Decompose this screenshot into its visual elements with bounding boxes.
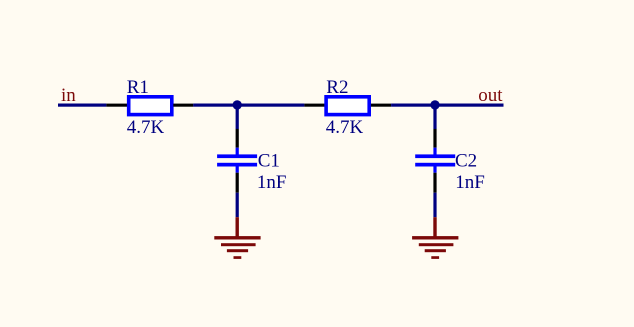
svg-text:1nF: 1nF <box>257 172 287 193</box>
svg-text:C1: C1 <box>258 150 280 171</box>
wire <box>193 104 304 107</box>
capacitor C2 <box>415 148 455 173</box>
wire <box>433 105 436 129</box>
wire <box>391 104 503 107</box>
svg-text:R2: R2 <box>326 77 348 98</box>
wire <box>433 193 436 218</box>
ground GND1 <box>214 217 260 259</box>
resistor R1 <box>129 97 172 115</box>
junction node A <box>233 100 242 109</box>
pin 2 of C1 <box>236 173 239 193</box>
svg-text:in: in <box>61 85 76 106</box>
svg-text:out: out <box>478 85 503 106</box>
resistor R2 <box>326 97 369 115</box>
pin 1 of C1 <box>236 129 239 148</box>
pin 1 of C2 <box>433 129 436 148</box>
capacitor C1 <box>217 148 257 173</box>
svg-text:R1: R1 <box>127 77 149 98</box>
svg-text:4.7K: 4.7K <box>127 117 165 138</box>
pin 2 of R2 <box>371 104 391 107</box>
ground GND2 <box>412 217 458 259</box>
wire <box>58 104 106 107</box>
pin 1 of R1 <box>106 104 127 107</box>
junction node B <box>430 100 439 109</box>
pin 1 of R2 <box>304 104 325 107</box>
wire <box>236 105 239 129</box>
pin 2 of C2 <box>433 173 436 193</box>
wire <box>236 193 239 218</box>
svg-text:C2: C2 <box>455 150 477 171</box>
svg-text:4.7K: 4.7K <box>326 117 364 138</box>
svg-text:1nF: 1nF <box>455 172 485 193</box>
pin 2 of R1 <box>173 104 193 107</box>
